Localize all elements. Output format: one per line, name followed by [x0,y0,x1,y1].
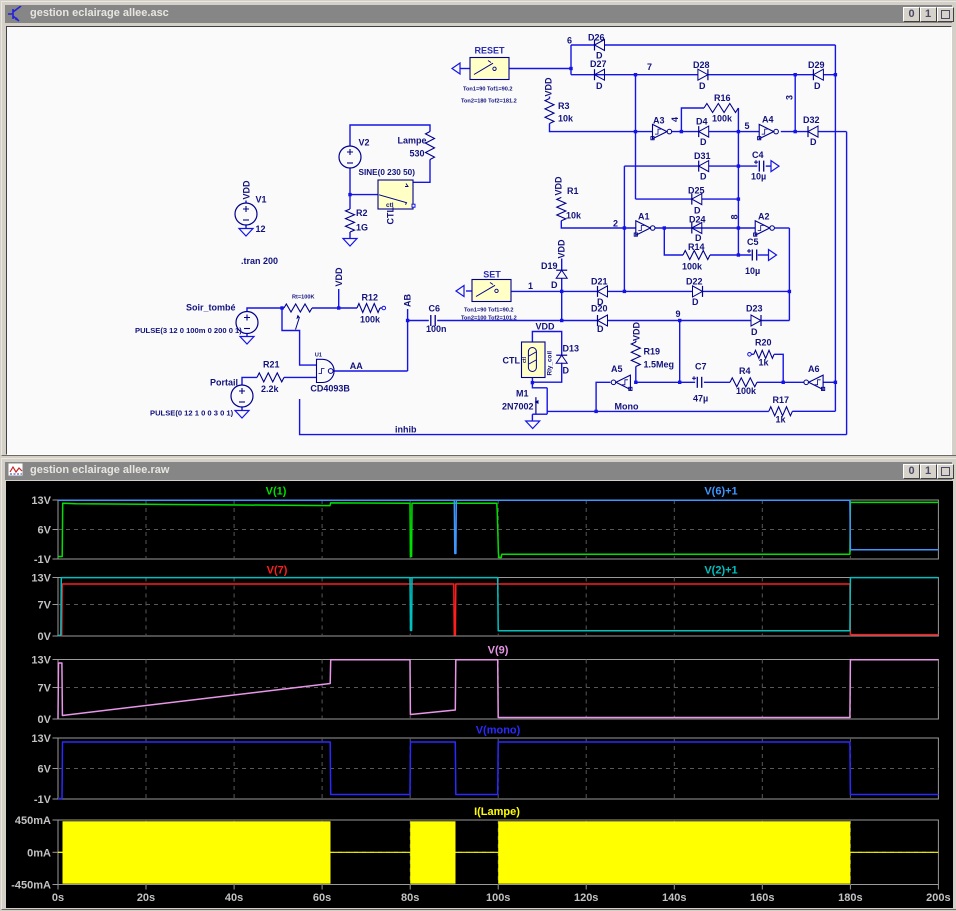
svg-text:VDD: VDD [242,180,252,200]
svg-text:9: 9 [676,309,681,319]
svg-text:100k: 100k [360,315,381,325]
svg-text:6: 6 [567,36,572,46]
svg-text:100k: 100k [712,114,733,124]
svg-text:R12: R12 [362,293,379,303]
svg-text:C7: C7 [695,362,707,372]
svg-text:10µ: 10µ [751,172,766,182]
svg-text:0V: 0V [38,714,52,726]
svg-text:D: D [814,81,821,91]
svg-text:VDD: VDD [557,239,567,259]
svg-text:R21: R21 [263,360,280,370]
svg-text:10k: 10k [566,211,582,221]
svg-text:VDD: VDD [334,267,344,287]
svg-text:CTL: CTL [386,207,396,225]
svg-text:D29: D29 [808,60,825,70]
svg-text:0s: 0s [52,892,64,904]
svg-text:A2: A2 [758,212,770,222]
svg-text:1: 1 [528,281,533,291]
svg-text:R20: R20 [755,338,772,348]
svg-text:13V: 13V [31,495,51,507]
svg-text:200s: 200s [926,892,950,904]
svg-text:I(Lampe): I(Lampe) [474,806,520,818]
svg-text:Rly_coil: Rly_coil [547,351,554,376]
svg-text:VDD: VDD [554,176,564,196]
svg-text:40s: 40s [225,892,243,904]
svg-text:V(mono): V(mono) [476,725,521,737]
svg-text:V(1): V(1) [266,486,287,498]
svg-text:5: 5 [745,121,750,131]
svg-text:PULSE(3 12 0 100m 0 200 0 1): PULSE(3 12 0 100m 0 200 0 1) [135,326,242,335]
svg-text:Ton1=90 Tof1=90.2: Ton1=90 Tof1=90.2 [464,308,514,314]
svg-text:PULSE(0 12 1 0 0 3 0 1): PULSE(0 12 1 0 0 3 0 1) [150,409,234,418]
svg-text:SET: SET [483,270,501,280]
svg-text:V(2)+1: V(2)+1 [704,565,737,577]
svg-text:100n: 100n [426,324,447,334]
svg-text:R19: R19 [644,347,661,357]
svg-text:V(7): V(7) [267,565,288,577]
svg-text:140s: 140s [662,892,686,904]
svg-text:D: D [700,137,707,147]
svg-text:1k: 1k [776,415,787,425]
svg-text:47µ: 47µ [693,394,708,404]
svg-text:13V: 13V [31,733,51,745]
svg-text:D: D [551,280,558,290]
svg-text:D: D [563,366,570,376]
svg-text:A5: A5 [611,364,623,374]
svg-text:D25: D25 [688,186,705,196]
svg-text:-1V: -1V [34,794,52,806]
svg-text:12: 12 [256,224,266,234]
svg-text:D28: D28 [693,60,710,70]
svg-text:10k: 10k [558,114,574,124]
svg-text:A3: A3 [653,116,665,126]
svg-text:D31: D31 [694,151,711,161]
svg-text:D: D [751,327,758,337]
svg-text:M1: M1 [516,389,529,399]
svg-text:2: 2 [613,219,618,229]
svg-text:Lampe: Lampe [398,136,427,146]
svg-text:Mono: Mono [615,402,639,412]
svg-text:2.2k: 2.2k [261,384,280,394]
svg-text:20s: 20s [137,892,155,904]
svg-text:V(6)+1: V(6)+1 [704,486,737,498]
svg-text:V2: V2 [359,138,370,148]
svg-text:3: 3 [785,95,795,100]
svg-text:R3: R3 [558,101,570,111]
svg-text:R16: R16 [714,93,731,103]
svg-text:1G: 1G [356,223,368,233]
svg-text:V(9): V(9) [488,645,509,657]
svg-text:1.5Meg: 1.5Meg [644,360,675,370]
svg-text:D20: D20 [591,304,608,314]
svg-text:0V: 0V [38,631,52,643]
svg-text:10µ: 10µ [745,266,760,276]
svg-text:100s: 100s [486,892,510,904]
svg-text:.tran 200: .tran 200 [241,256,278,266]
svg-text:0mA: 0mA [27,847,51,859]
svg-text:7: 7 [647,62,652,72]
svg-text:AA: AA [350,361,363,371]
svg-text:R1: R1 [567,186,579,196]
svg-text:inhib: inhib [395,425,417,435]
svg-text:7V: 7V [38,683,52,695]
svg-text:D: D [700,172,707,182]
svg-text:180s: 180s [838,892,862,904]
svg-text:D4: D4 [696,117,708,127]
svg-text:Soir_tombé: Soir_tombé [186,303,236,313]
svg-text:D23: D23 [746,304,763,314]
svg-text:R14: R14 [688,242,705,252]
svg-text:160s: 160s [750,892,774,904]
svg-text:Ton1=90 Tof1=90.2: Ton1=90 Tof1=90.2 [463,87,513,93]
svg-text:U1: U1 [315,353,322,359]
svg-text:SINE(0 230 50): SINE(0 230 50) [359,168,416,177]
svg-text:R2: R2 [356,208,368,218]
svg-text:4: 4 [670,117,680,122]
svg-text:AB: AB [403,294,413,307]
svg-text:RESET: RESET [474,46,505,56]
svg-text:ctl: ctl [522,356,528,363]
svg-text:-450mA: -450mA [11,880,51,892]
svg-text:CTL: CTL [503,356,521,366]
svg-text:D: D [596,81,603,91]
svg-text:VDD: VDD [631,321,641,341]
svg-text:D: D [810,137,817,147]
svg-text:A4: A4 [762,115,774,125]
svg-text:8: 8 [730,214,740,219]
svg-text:100k: 100k [682,262,703,272]
svg-text:13V: 13V [31,573,51,585]
svg-text:7V: 7V [38,600,52,612]
svg-text:13V: 13V [31,655,51,667]
svg-text:D13: D13 [563,344,580,354]
svg-text:Ton2=180 Tof2=181.2: Ton2=180 Tof2=181.2 [461,99,517,105]
svg-text:C6: C6 [429,304,441,314]
svg-text:D: D [692,297,699,307]
svg-text:6V: 6V [38,525,52,537]
svg-text:D32: D32 [803,115,820,125]
svg-text:D22: D22 [686,277,703,287]
svg-text:Ton2=100 Tof2=101.2: Ton2=100 Tof2=101.2 [461,316,517,322]
svg-text:V1: V1 [256,195,267,205]
svg-text:450mA: 450mA [15,815,51,827]
svg-text:-1V: -1V [34,554,52,566]
svg-text:60s: 60s [313,892,331,904]
svg-text:2N7002: 2N7002 [502,402,534,412]
svg-text:C4: C4 [752,150,764,160]
svg-text:C5: C5 [747,237,759,247]
svg-text:80s: 80s [401,892,419,904]
svg-text:D21: D21 [591,277,608,287]
svg-text:1k: 1k [759,358,770,368]
svg-text:6V: 6V [38,764,52,776]
svg-text:R17: R17 [773,395,790,405]
svg-text:100k: 100k [736,386,757,396]
svg-text:Portail: Portail [210,378,238,388]
svg-text:D26: D26 [588,33,605,43]
svg-text:CD4093B: CD4093B [310,384,350,394]
svg-text:D27: D27 [590,59,607,69]
svg-text:R4: R4 [739,366,751,376]
svg-text:A6: A6 [808,364,820,374]
svg-text:VDD: VDD [536,322,556,332]
svg-text:Rt=100K: Rt=100K [292,295,315,301]
svg-text:VDD: VDD [544,77,554,97]
svg-text:120s: 120s [574,892,598,904]
svg-text:D: D [699,81,706,91]
svg-text:530: 530 [410,149,425,159]
svg-text:A1: A1 [638,212,650,222]
svg-text:D: D [597,324,604,334]
svg-text:D24: D24 [689,215,706,225]
svg-text:D19: D19 [541,261,558,271]
